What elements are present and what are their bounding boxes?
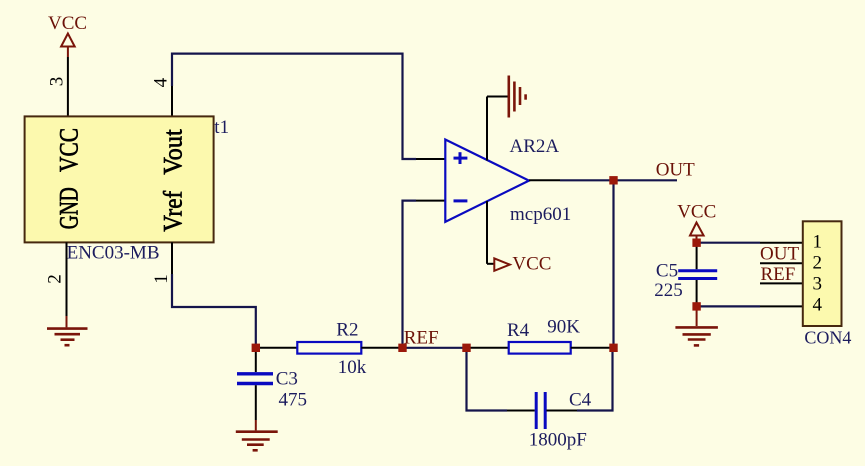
- svg-text:VCC: VCC: [54, 128, 83, 172]
- node REF: [404, 327, 439, 348]
- capacitor C3: [237, 369, 307, 411]
- svg-text:ENC03-MB: ENC03-MB: [67, 243, 160, 264]
- wire output junction down to R4 right: [612, 180, 614, 347]
- svg-text:10k: 10k: [338, 357, 367, 378]
- opamp V+ pin (up): [486, 97, 488, 161]
- junction at output: [609, 176, 617, 184]
- junction at node REF: [398, 344, 406, 352]
- wire to rotated ground: [487, 96, 508, 98]
- svg-text:3: 3: [46, 77, 67, 87]
- svg-text:3: 3: [813, 274, 823, 295]
- power port VCC (at C5): [677, 202, 716, 243]
- connector CON4 body: [803, 221, 852, 347]
- svg-text:VCC: VCC: [512, 254, 551, 275]
- svg-text:475: 475: [279, 389, 308, 410]
- R4 right pin: [571, 347, 614, 349]
- capacitor C5: [654, 260, 717, 301]
- CON4 pin 1 line: [760, 242, 803, 244]
- wire C5 bottom to CON4 pin4: [697, 305, 760, 307]
- svg-text:mcp601: mcp601: [510, 204, 571, 225]
- svg-text:REF: REF: [761, 264, 796, 285]
- svg-text:OUT: OUT: [760, 244, 799, 265]
- ground (below C3): [236, 420, 278, 450]
- opamp + input pin: [416, 158, 445, 160]
- svg-text:OUT: OUT: [656, 160, 695, 181]
- junction R4 left: [462, 344, 470, 352]
- svg-text:VCC: VCC: [48, 13, 87, 34]
- R4 left pin: [467, 347, 509, 349]
- op-amp AR2A mcp601: [445, 136, 571, 225]
- CON4 pin 3 line: [760, 282, 803, 284]
- svg-text:1: 1: [813, 231, 823, 252]
- svg-text:1800pF: 1800pF: [529, 429, 587, 450]
- svg-text:1: 1: [151, 274, 172, 284]
- wire R2 to REF node (pin): [361, 347, 402, 349]
- svg-text:90K: 90K: [547, 317, 580, 338]
- resistor R2: [297, 319, 366, 378]
- svg-text:C3: C3: [276, 369, 298, 390]
- svg-text:C4: C4: [569, 390, 592, 411]
- svg-text:Vref: Vref: [159, 191, 188, 232]
- C3 bottom pin: [255, 385, 257, 420]
- svg-text:Vout: Vout: [159, 129, 188, 175]
- C5 bottom pin: [696, 280, 698, 306]
- CON4 pin 2 line: [760, 262, 803, 264]
- resistor R4: [507, 317, 580, 354]
- junction at C3: [252, 344, 260, 352]
- pin 4 of t1: [150, 77, 172, 116]
- ground (below pin 2): [47, 316, 88, 345]
- CON4 pin 4 line: [760, 305, 803, 307]
- wire pin1 to node at C3: [172, 274, 256, 348]
- svg-text:CON4: CON4: [804, 328, 851, 348]
- svg-text:R4: R4: [507, 320, 530, 341]
- svg-text:GND: GND: [54, 187, 83, 229]
- junction R4 right: [609, 344, 617, 352]
- svg-text:225: 225: [654, 280, 683, 301]
- svg-text:t1: t1: [214, 117, 229, 138]
- svg-text:REF: REF: [404, 327, 439, 348]
- wire REF node to opamp - input: [403, 201, 417, 348]
- ground (below C5): [675, 306, 718, 345]
- C4 right pin: [547, 410, 578, 412]
- svg-text:C5: C5: [656, 260, 678, 281]
- svg-text:AR2A: AR2A: [510, 136, 560, 157]
- component t1 ENC03-MB body: [25, 116, 229, 263]
- wire C4 branch right: [577, 348, 613, 411]
- C4 left pin: [507, 410, 535, 412]
- wire output to OUT: [560, 179, 677, 181]
- wire C4 branch left: [467, 348, 508, 411]
- power port VCC (below op-amp): [494, 254, 551, 275]
- capacitor C4: [529, 390, 592, 451]
- wire pin4 to opamp + input (top rail): [172, 54, 416, 159]
- junction C5 top: [692, 239, 700, 247]
- C5 top pin: [696, 243, 698, 270]
- opamp - input pin: [416, 200, 445, 202]
- junction C5 bottom: [692, 302, 700, 310]
- opamp output pin: [529, 179, 560, 181]
- svg-text:R2: R2: [336, 319, 358, 340]
- wire REF node to R4: [403, 347, 467, 349]
- svg-text:VCC: VCC: [677, 202, 716, 223]
- pin 3 of t1: [46, 57, 68, 116]
- wire junction C3 to R2 (pin): [256, 347, 297, 349]
- svg-text:2: 2: [813, 253, 823, 274]
- pin 2 of t1: [45, 242, 67, 316]
- svg-text:2: 2: [45, 274, 66, 284]
- wire C5 top to CON4 pin1: [697, 242, 760, 244]
- power port VCC (top-left): [48, 13, 87, 57]
- opamp V- pin (down): [486, 201, 488, 264]
- pin 1 of t1: [151, 242, 172, 283]
- svg-text:4: 4: [150, 77, 171, 87]
- svg-text:4: 4: [813, 294, 823, 315]
- C3 top pin: [255, 348, 257, 372]
- ground (rotated, above op-amp): [509, 76, 526, 118]
